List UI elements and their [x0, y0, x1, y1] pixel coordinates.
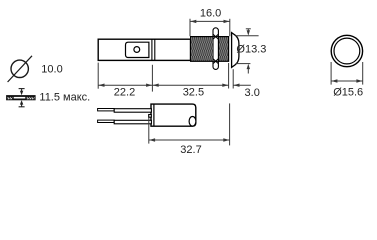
svg-text:Ø15.6: Ø15.6	[333, 86, 363, 98]
dimension 32.7	[149, 103, 230, 145]
body outline	[98, 39, 190, 60]
svg-text:11.5 макс.: 11.5 макс.	[39, 92, 90, 104]
lead wires	[98, 109, 115, 111]
key plate hole	[134, 47, 140, 53]
svg-text:3.0: 3.0	[245, 87, 260, 99]
section divider	[151, 39, 153, 60]
lamp tip	[189, 117, 196, 127]
svg-text:22.2: 22.2	[114, 87, 135, 99]
svg-text:32.7: 32.7	[180, 144, 201, 156]
panel thickness symbol	[7, 89, 35, 107]
base notch	[149, 115, 152, 118]
svg-text:16.0: 16.0	[200, 8, 221, 20]
lens inner circle	[334, 38, 360, 64]
dimension 16.0	[190, 19, 230, 36]
svg-text:Ø13.3: Ø13.3	[236, 43, 266, 55]
bezel outer circle	[331, 35, 362, 66]
svg-text:32.5: 32.5	[183, 87, 204, 99]
key plate	[126, 42, 149, 57]
lamp cylinder	[151, 104, 196, 126]
thread	[191, 37, 229, 62]
dimension D15.6	[331, 62, 363, 85]
svg-text:10.0: 10.0	[41, 64, 62, 76]
bottom dimension row: 22.2 / 32.5 / 3.0	[98, 63, 251, 92]
dimension D13.3	[235, 29, 258, 74]
flange (lens head)	[232, 33, 239, 68]
locating tab	[213, 28, 218, 70]
diameter symbol (mounting hole)	[8, 56, 32, 82]
